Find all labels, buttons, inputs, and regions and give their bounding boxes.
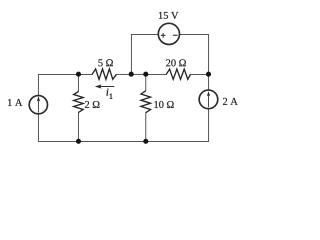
resistor 2 ohm (vertical zigzag) xyxy=(74,92,84,113)
wire middle rail left segment (left branch to 5 ohm) xyxy=(38,73,92,75)
voltage source 15 V (circle) xyxy=(158,23,179,44)
resistor 20 ohm (horizontal zigzag) xyxy=(166,69,190,79)
node dot at 10 ohm bottom xyxy=(143,139,148,144)
node dot at 2 ohm top xyxy=(76,72,81,77)
wire 2 ohm bottom lead xyxy=(77,112,79,141)
node dot b (riser to 15 V) xyxy=(129,72,134,77)
wire left branch top lead xyxy=(37,74,39,95)
wire bottom rail xyxy=(38,140,208,142)
wire left branch bottom lead xyxy=(37,114,39,142)
label 5 ohm xyxy=(98,59,112,66)
minus sign inside 15 V source xyxy=(173,34,178,36)
resistor 10 ohm (vertical zigzag) xyxy=(141,91,151,113)
node dot at 2 ohm bottom xyxy=(76,139,81,144)
wire 5 ohm right lead to node b xyxy=(116,73,131,75)
node dot d (right branch) xyxy=(206,72,211,77)
wire 10 ohm bottom lead xyxy=(145,113,147,142)
wire 10 ohm top lead xyxy=(145,74,147,90)
label i (italic) xyxy=(106,89,108,96)
label 15 V xyxy=(159,12,178,19)
label 2 ohm xyxy=(85,101,100,108)
arrow inside 2 A source xyxy=(207,91,210,107)
label 1 A xyxy=(8,99,22,106)
label i subscript 1 xyxy=(110,94,113,99)
wire 2 A source bottom lead xyxy=(208,109,210,142)
wire node b to node c xyxy=(131,73,146,75)
node dot c (10 ohm top) xyxy=(143,72,148,77)
wire 2 ohm top lead xyxy=(77,74,79,91)
resistor 5 ohm (horizontal zigzag) xyxy=(92,69,116,79)
wire 2 A source top lead xyxy=(208,74,210,90)
label 20 ohm xyxy=(166,59,186,66)
current source 1 A (circle) xyxy=(29,96,47,114)
wire 20 ohm to node d xyxy=(190,73,208,75)
plus sign inside 15 V source xyxy=(161,33,166,38)
current source 2 A (circle) xyxy=(199,90,218,109)
arrow inside 1 A source xyxy=(37,96,40,112)
wire 15 V source to top right corner and down to node d xyxy=(180,34,209,74)
label 10 ohm xyxy=(154,101,173,108)
wire riser node b up to 15 V source xyxy=(131,34,158,74)
current arrow i1 under 5 ohm resistor xyxy=(95,84,115,88)
wire node c to 20 ohm xyxy=(146,73,166,75)
label 2 A xyxy=(223,98,238,105)
